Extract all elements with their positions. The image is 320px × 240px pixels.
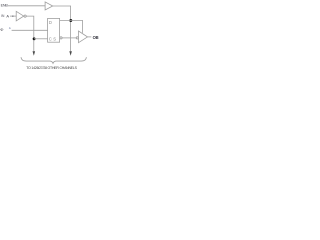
svg-text:Φ: Φ bbox=[0, 27, 3, 32]
svg-text:OB: OB bbox=[93, 35, 99, 40]
svg-text:A: A bbox=[6, 13, 9, 18]
svg-text:TO 1426/27/28 OTHER CHANNELS: TO 1426/27/28 OTHER CHANNELS bbox=[26, 66, 77, 70]
svg-text:IN: IN bbox=[1, 14, 5, 18]
svg-text:D: D bbox=[49, 20, 52, 25]
svg-text:ENB: ENB bbox=[1, 4, 9, 8]
svg-text:C: C bbox=[49, 37, 52, 42]
svg-text:A: A bbox=[9, 26, 11, 30]
svg-text:S: S bbox=[53, 37, 56, 42]
